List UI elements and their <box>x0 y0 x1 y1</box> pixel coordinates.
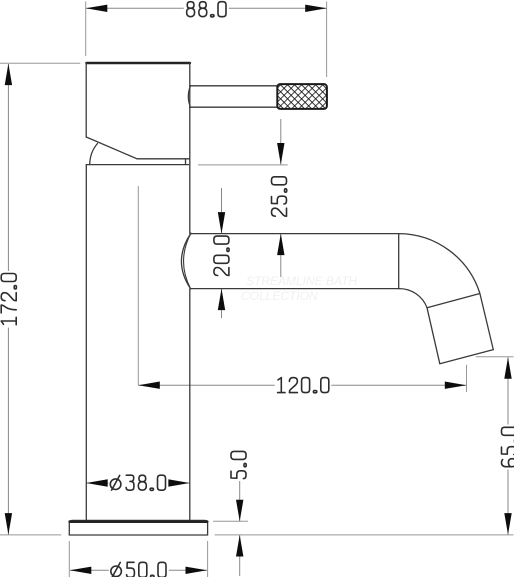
svg-text:STREAMLINE BATH: STREAMLINE BATH <box>246 274 357 288</box>
svg-text:COLLECTION: COLLECTION <box>241 289 318 303</box>
